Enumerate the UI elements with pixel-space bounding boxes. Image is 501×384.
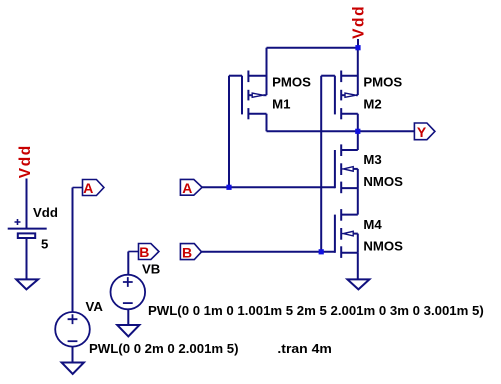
wire Vdd label stub: [357, 39, 359, 48]
flag A input net A: [180, 179, 202, 195]
wire M3 source to M4 drain: [357, 188, 359, 215]
flag B at VB: [128, 244, 159, 260]
junction node Y: [355, 129, 360, 134]
transistor M1 (PMOS): [229, 71, 267, 120]
ground under M4: [347, 279, 369, 289]
svg-text:VB: VB: [142, 262, 160, 277]
junction node B: [319, 249, 324, 254]
svg-text:B: B: [139, 244, 149, 260]
flag A at VA: [73, 180, 104, 196]
voltage source VB: [111, 252, 146, 326]
wire M2 drain lead: [357, 114, 359, 132]
ground under battery Vdd: [16, 279, 38, 289]
svg-text:A: A: [182, 180, 192, 196]
transistor M3 (NMOS): [335, 144, 358, 193]
svg-text:Y: Y: [417, 124, 427, 140]
svg-text:.tran 4m: .tran 4m: [277, 341, 332, 356]
svg-text:VA: VA: [86, 299, 104, 314]
svg-text:PWL(0 0 2m 0 2.001m 5): PWL(0 0 2m 0 2.001m 5): [89, 341, 239, 356]
svg-text:NMOS: NMOS: [363, 174, 403, 189]
svg-text:A: A: [83, 180, 93, 196]
wire M3 drain lead: [357, 131, 359, 150]
svg-text:M1: M1: [272, 97, 290, 112]
svg-text:5: 5: [41, 237, 48, 252]
svg-text:M2: M2: [363, 97, 381, 112]
svg-text:B: B: [182, 244, 192, 260]
svg-text:PWL(0 0 1m 0 1.001m 5 2m 5 2.0: PWL(0 0 1m 0 1.001m 5 2m 5 2.001m 0 3m 0…: [148, 303, 484, 318]
wire M2 source lead: [357, 48, 359, 95]
wire net B rail: [202, 251, 335, 253]
voltage source Vdd (battery cell): [8, 179, 47, 280]
svg-text:PMOS: PMOS: [272, 74, 311, 89]
flag Y output: [414, 123, 435, 140]
ground under VA: [62, 363, 84, 374]
transistor M4 (NMOS): [335, 209, 358, 258]
svg-text:PMOS: PMOS: [363, 74, 402, 89]
wire Vdd rail: [267, 47, 359, 49]
wire M2 gate down to node B: [320, 76, 322, 252]
svg-text:M3: M3: [363, 152, 381, 167]
wire M4 source lead: [357, 253, 359, 280]
ground under VB: [117, 325, 139, 336]
voltage source VA: [55, 188, 90, 363]
svg-text:Vdd: Vdd: [351, 5, 368, 39]
wire M1 drain lead: [266, 114, 268, 132]
svg-text:M4: M4: [363, 217, 382, 232]
junction node Vdd: [355, 45, 360, 50]
wire M1 gate down to node A: [228, 76, 230, 188]
svg-text:NMOS: NMOS: [363, 239, 403, 254]
wire Y output rail: [267, 130, 415, 132]
svg-text:Vdd: Vdd: [33, 205, 58, 220]
svg-text:Vdd: Vdd: [17, 144, 34, 178]
transistor M2 (PMOS): [321, 71, 358, 120]
wire net A rail: [202, 186, 335, 188]
wire M1 source lead: [266, 48, 268, 95]
junction node A: [226, 185, 231, 190]
flag B input net B: [180, 244, 201, 260]
